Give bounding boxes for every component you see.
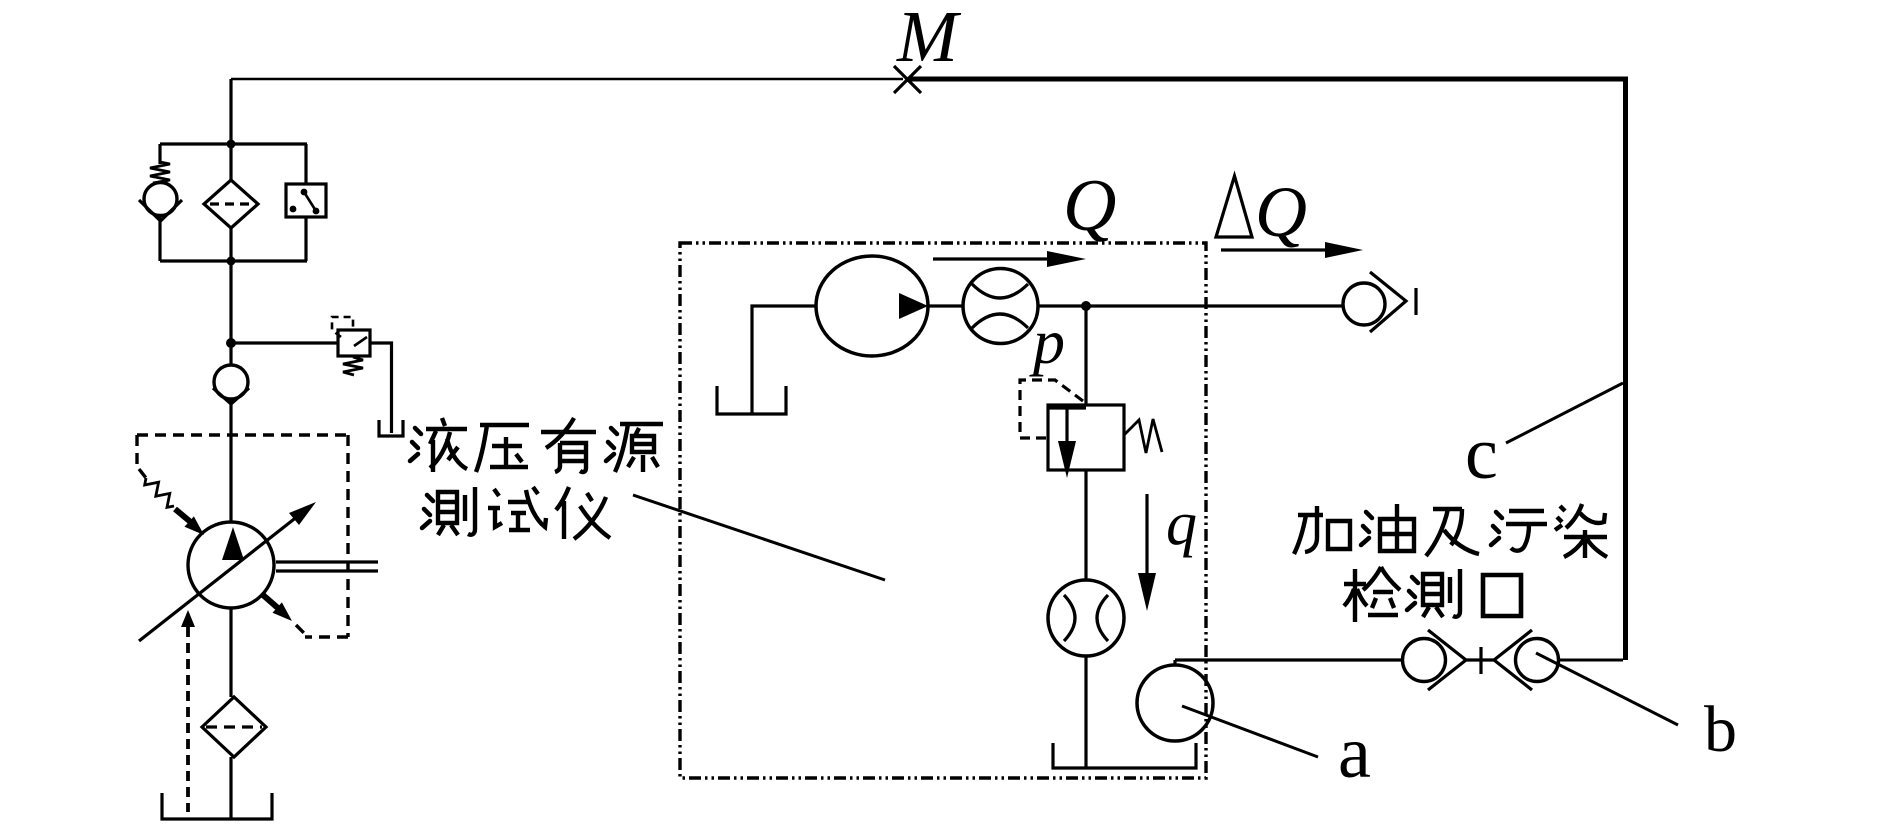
svg-text:M: M bbox=[896, 0, 962, 77]
svg-text:b: b bbox=[1704, 693, 1737, 766]
svg-text:Q: Q bbox=[1255, 172, 1307, 252]
svg-text:a: a bbox=[1338, 712, 1371, 794]
svg-text:Q: Q bbox=[1063, 165, 1116, 247]
svg-text:q: q bbox=[1166, 490, 1197, 558]
svg-text:c: c bbox=[1465, 413, 1498, 495]
svg-text:p: p bbox=[1029, 306, 1065, 377]
